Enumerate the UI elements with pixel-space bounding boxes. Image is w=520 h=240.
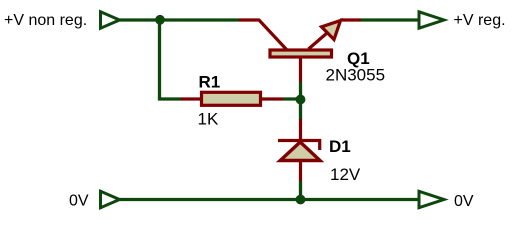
svg-text:0V: 0V: [69, 193, 89, 210]
port arrow +V reg: [419, 11, 444, 30]
svg-text:0V: 0V: [454, 193, 474, 210]
wire base junction vertical: [299, 82, 302, 120]
wire bottom rail: [120, 198, 420, 201]
port arrow +V non reg: [101, 11, 120, 30]
svg-text:1K: 1K: [198, 110, 219, 129]
transistor Q1 collector pin: [239, 20, 287, 50]
node bottom junction: [296, 195, 306, 205]
wire diode to bottom rail: [299, 181, 302, 200]
port arrow 0V right: [419, 190, 444, 209]
wire top rail: [120, 18, 240, 21]
transistor Q1 base pin: [299, 59, 302, 83]
svg-text:+V reg.: +V reg.: [454, 12, 506, 29]
svg-text:R1: R1: [199, 73, 221, 92]
wire junction down and right to R1: [160, 20, 182, 99]
zener diode D1: [278, 119, 320, 181]
transistor Q1 emitter pin with arrow: [309, 20, 362, 49]
svg-text:D1: D1: [329, 137, 351, 156]
svg-text:+V non reg.: +V non reg.: [4, 12, 87, 29]
node base junction: [296, 95, 306, 105]
node top junction: [155, 15, 165, 25]
wire emitter to +V reg: [361, 18, 419, 21]
svg-text:12V: 12V: [330, 165, 361, 184]
wire R1 to base junction: [283, 97, 300, 100]
resistor R1: [181, 92, 283, 105]
transistor Q1 base bar: [270, 50, 332, 57]
svg-text:2N3055: 2N3055: [326, 66, 386, 85]
port arrow 0V left: [101, 190, 120, 209]
